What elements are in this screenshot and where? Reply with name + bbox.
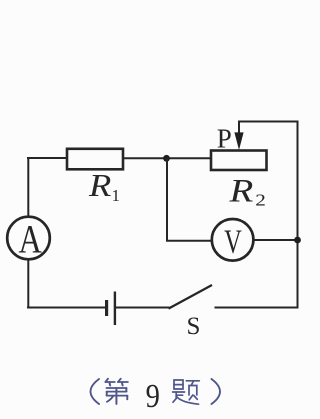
svg-text:R: R — [88, 168, 111, 203]
wiper arm vertical — [238, 122, 240, 135]
svg-text:S: S — [187, 313, 201, 340]
wire top-left horizontal — [27, 157, 67, 159]
wire voltmeter to right rail — [253, 239, 297, 241]
wiper arrowhead — [234, 132, 243, 150]
node junction right — [294, 237, 301, 244]
wire left vertical upper — [27, 157, 29, 217]
caption (第 9 题) — [91, 379, 221, 405]
svg-text:1: 1 — [112, 186, 121, 205]
wire bottom right — [215, 307, 299, 309]
svg-text:2: 2 — [255, 191, 266, 210]
svg-text:R: R — [228, 172, 253, 209]
wire battery to switch — [116, 307, 170, 309]
svg-text:9: 9 — [146, 377, 160, 415]
resistor R1 — [67, 149, 123, 170]
caption char TI (题) — [173, 380, 200, 404]
wire R1 to R2 — [123, 157, 212, 159]
wire bottom left — [27, 307, 105, 309]
svg-text:V: V — [224, 224, 242, 261]
wire branch horizontal to voltmeter — [166, 240, 212, 242]
wire branch vertical to voltmeter — [166, 158, 168, 241]
resistor R2 (rheostat) — [211, 151, 267, 171]
svg-text:P: P — [217, 123, 232, 153]
voltmeter V1 circle — [212, 219, 254, 261]
battery positive plate (long) — [114, 292, 116, 326]
wire wiper horizontal — [238, 121, 298, 123]
node junction top — [163, 155, 170, 162]
ammeter A1 circle — [7, 217, 50, 260]
caption open paren — [91, 379, 100, 404]
battery negative plate (short) — [105, 300, 108, 316]
caption char DI (第) — [105, 379, 127, 404]
caption close paren — [212, 379, 221, 404]
svg-text:A: A — [19, 217, 42, 261]
switch S arm — [169, 285, 213, 309]
wire right vertical — [297, 121, 299, 309]
wire left vertical lower — [27, 259, 29, 309]
